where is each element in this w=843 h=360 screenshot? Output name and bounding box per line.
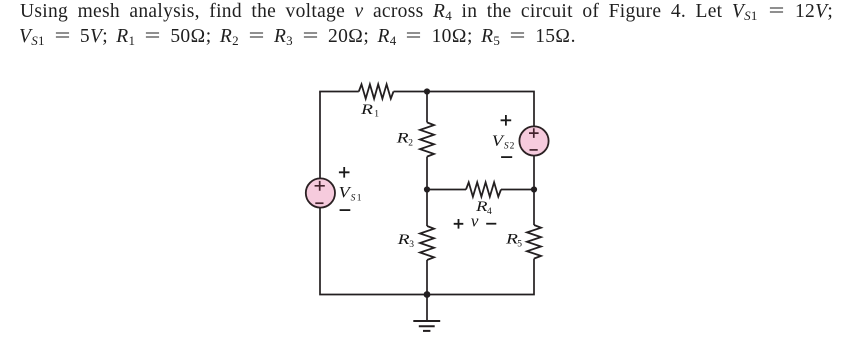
wire: VS1 bottom to bottom-left corner, along bottom to ground node — [320, 208, 427, 295]
wire: node C down to R5 — [533, 190, 535, 226]
wire: top-left corner, left branch down to VS1 top — [319, 92, 321, 179]
voltage source VS2 — [519, 126, 548, 155]
node A (junction of R1, R2, top wire) — [424, 88, 430, 94]
svg-text:3: 3 — [409, 240, 414, 250]
svg-text:R: R — [396, 232, 409, 248]
wire: node A to top-right corner, down to VS2 top — [427, 92, 534, 127]
voltage source VS1 — [306, 178, 335, 207]
wire: node B to R4 — [427, 189, 466, 191]
svg-text:R: R — [505, 232, 518, 248]
wire: top side from left corner to R1 — [319, 91, 359, 93]
ground — [413, 295, 440, 331]
wire: node B down to R3 — [426, 190, 428, 227]
wire: R2 to node B — [426, 157, 428, 190]
label R3 — [396, 232, 414, 250]
wire: R1 to node A — [394, 91, 428, 93]
svg-text:2: 2 — [510, 142, 515, 152]
label VS2 with polarity + - — [492, 115, 515, 157]
wire: R5 down to bottom-right corner, along bottom to ground node — [427, 259, 534, 295]
svg-text:1: 1 — [374, 110, 379, 120]
wire: R3 down to ground node — [426, 260, 428, 295]
resistor R5 — [527, 225, 541, 259]
svg-text:R: R — [395, 130, 408, 146]
problem statement line 1 — [20, 1, 833, 23]
svg-text:S: S — [504, 142, 509, 152]
wire: VS2 bottom to node C — [533, 156, 535, 190]
svg-text:1: 1 — [357, 193, 362, 203]
resistor R1 — [359, 84, 394, 98]
svg-text:R: R — [360, 102, 373, 118]
problem statement line 2 — [19, 26, 576, 48]
svg-text:2: 2 — [408, 138, 413, 148]
svg-text:v: v — [471, 212, 479, 231]
node B (junction of R2, R3, R4) — [424, 186, 430, 192]
resistor R3 — [420, 226, 434, 260]
resistor R2 — [420, 122, 434, 156]
label VS1 with polarity + - — [339, 167, 362, 210]
node C (junction of R4, VS2, R5) — [531, 186, 537, 192]
wire: node A down to R2 — [426, 91, 428, 123]
label R2 — [395, 130, 413, 148]
label R1 — [360, 102, 380, 120]
label R4 — [475, 199, 492, 217]
svg-text:4: 4 — [487, 207, 492, 217]
label + v - (voltage v across R4) — [454, 212, 497, 231]
svg-text:S: S — [351, 193, 356, 203]
svg-text:5: 5 — [517, 240, 522, 250]
ground node (junction at bottom center) — [424, 291, 431, 298]
label R5 — [505, 232, 523, 250]
wire: R4 to node C — [501, 189, 534, 191]
resistor R4 — [466, 182, 501, 196]
